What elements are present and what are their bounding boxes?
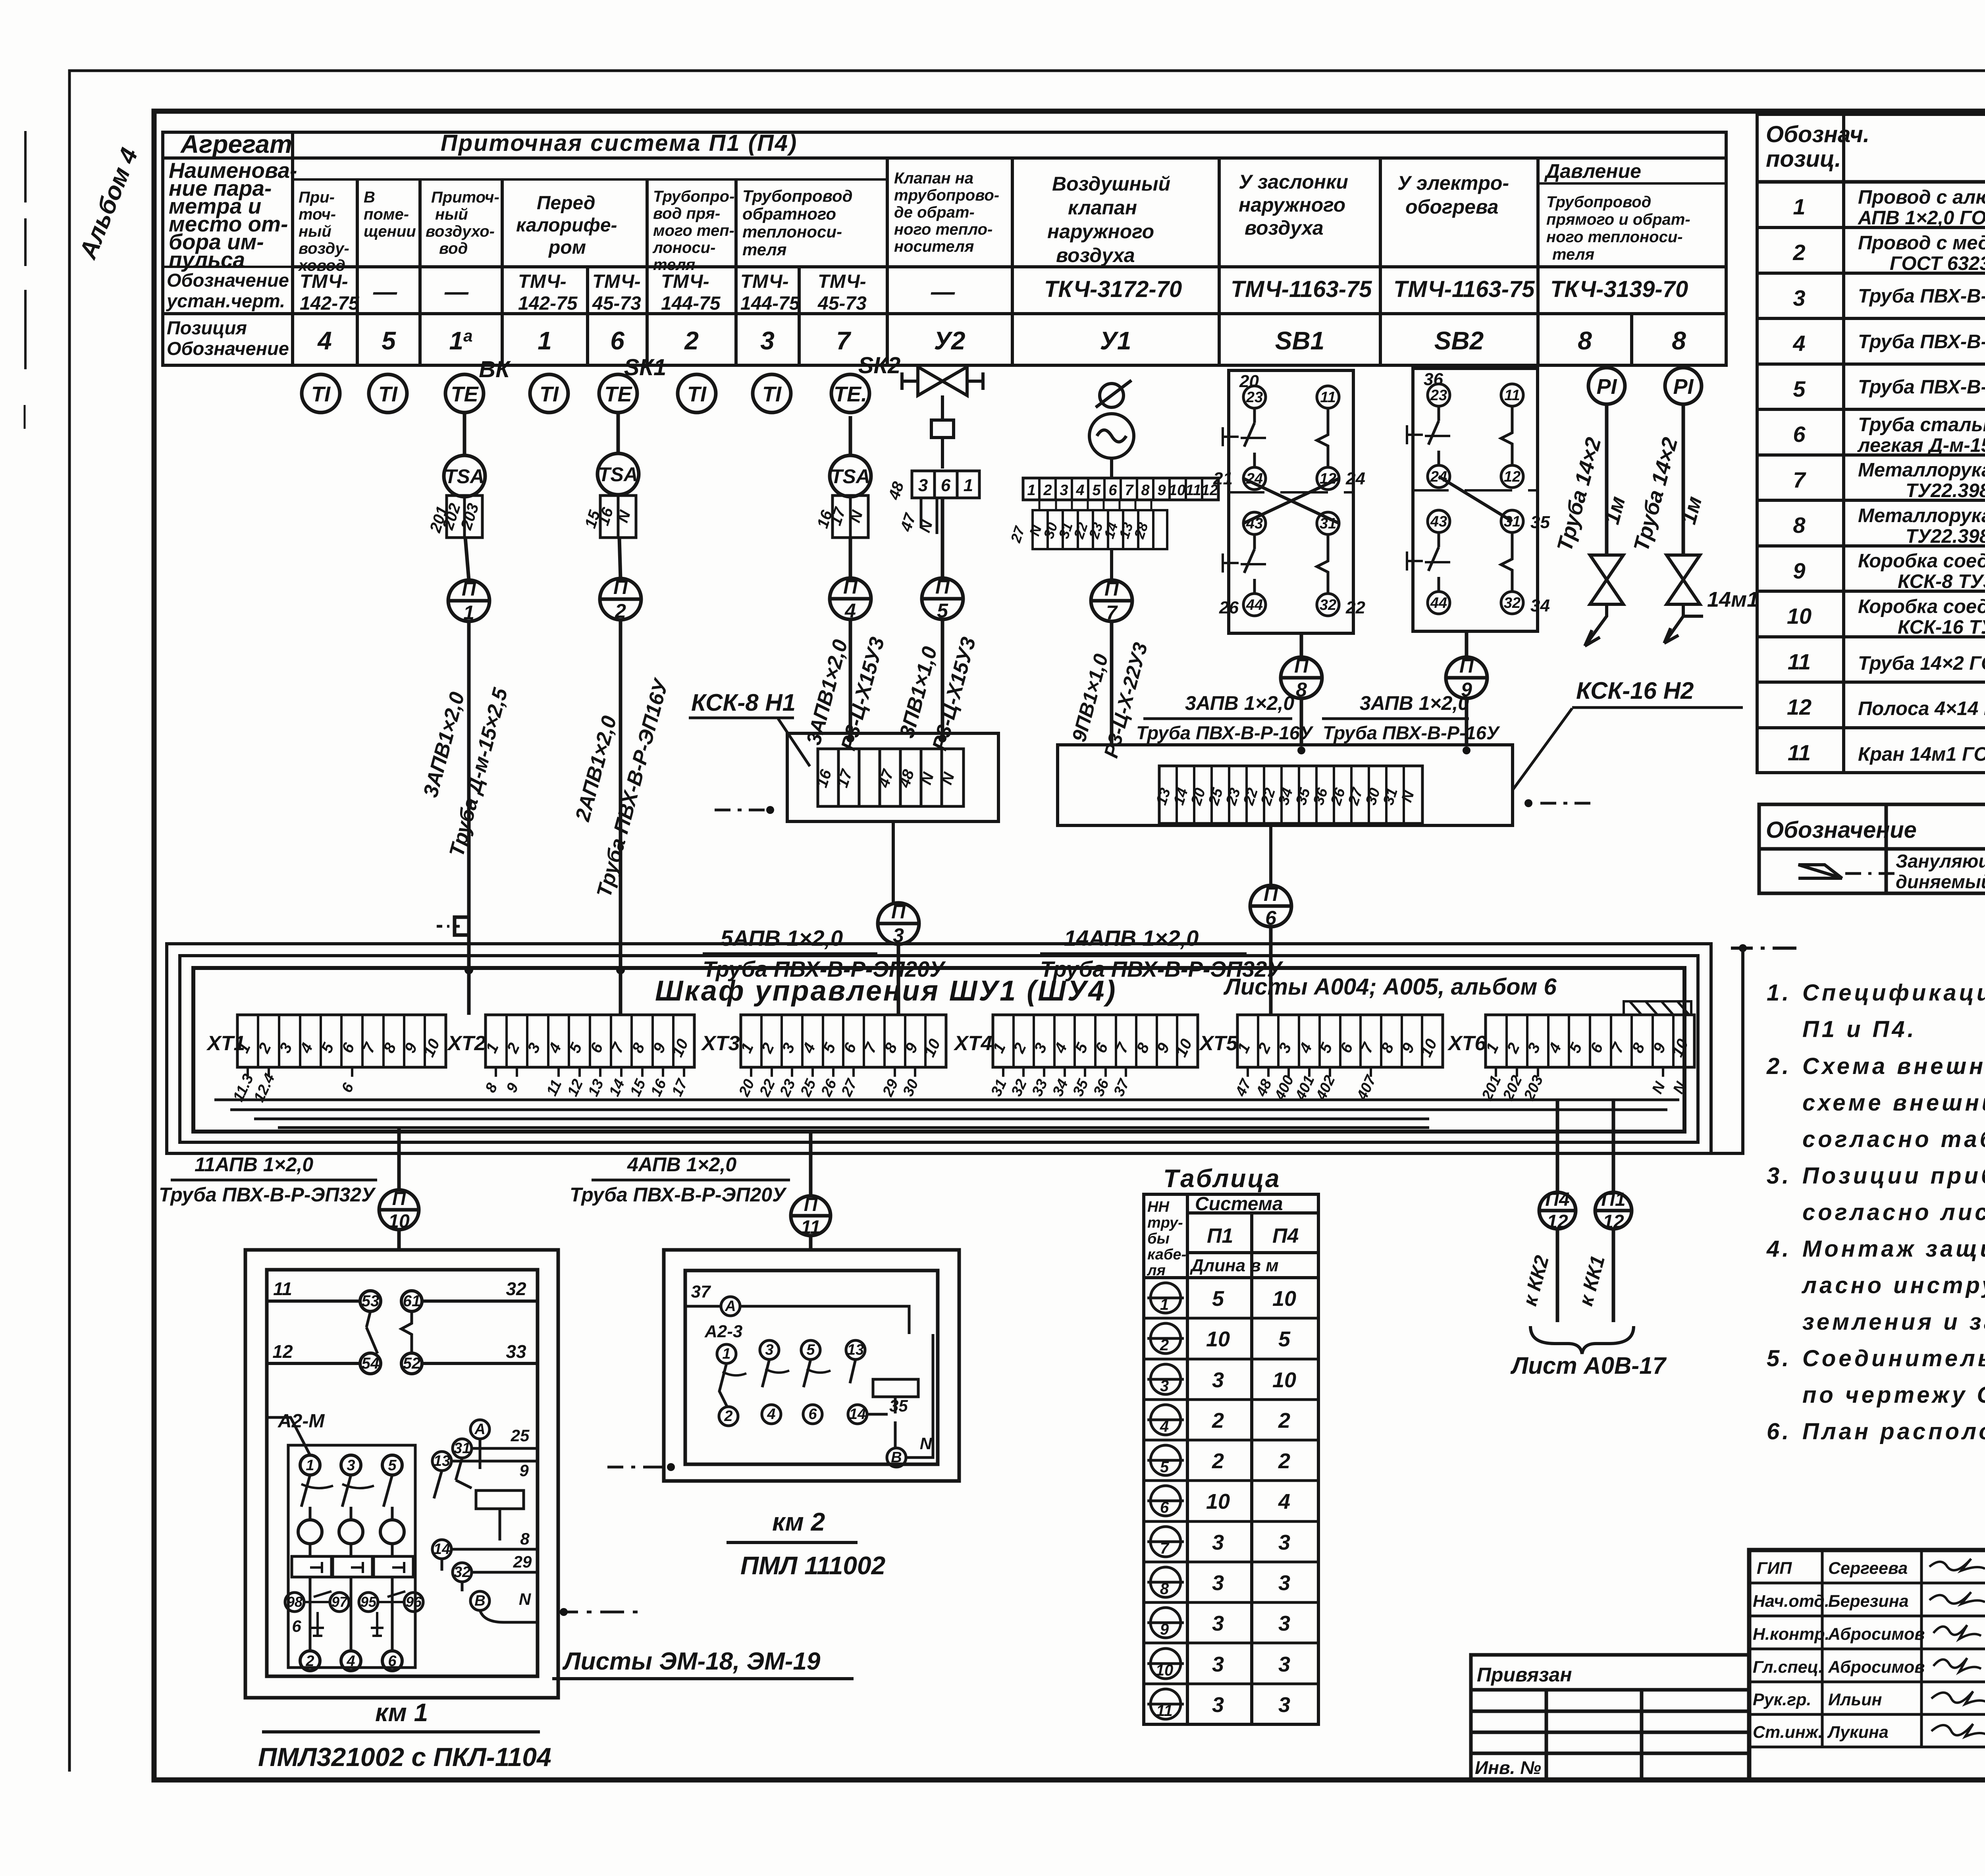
svg-text:TSА: TSА <box>598 463 638 486</box>
svg-text:ПМЛ321002 с ПКЛ-1104: ПМЛ321002 с ПКЛ-1104 <box>258 1742 551 1772</box>
svg-text:2.: 2. <box>1766 1053 1791 1079</box>
svg-text:34: 34 <box>1275 786 1296 807</box>
svg-text:10: 10 <box>1206 1327 1230 1351</box>
svg-text:Труба ПВХ-В-Р-ЭП16У: Труба ПВХ-В-Р-ЭП16У <box>592 675 673 900</box>
svg-text:ТМЧ-144-75: ТМЧ-144-75 <box>661 271 721 314</box>
svg-text:3: 3 <box>760 326 775 355</box>
svg-text:N: N <box>1670 1079 1690 1096</box>
svg-text:3: 3 <box>1160 1377 1169 1395</box>
svg-text:Труба стальная водогазопроводн: Труба стальная водогазопроводнаялегкая Д… <box>1857 414 1985 456</box>
svg-text:TE: TE <box>451 382 479 406</box>
svg-text:12: 12 <box>1787 694 1812 719</box>
svg-text:16: 16 <box>813 767 835 790</box>
svg-text:8: 8 <box>482 1080 501 1095</box>
svg-text:3: 3 <box>1793 285 1805 310</box>
svg-text:10: 10 <box>921 1036 944 1060</box>
svg-text:N: N <box>519 1590 532 1608</box>
svg-text:10: 10 <box>1172 1036 1196 1060</box>
svg-text:9: 9 <box>503 1080 522 1095</box>
svg-text:23: 23 <box>1246 389 1263 406</box>
svg-text:по чертежу ОН8-1-64.: по чертежу ОН8-1-64. <box>1802 1382 1985 1408</box>
svg-text:ПозицияОбозначение: ПозицияОбозначение <box>167 317 289 359</box>
svg-text:2: 2 <box>1043 482 1052 499</box>
svg-text:П: П <box>891 900 906 923</box>
svg-text:44: 44 <box>1430 595 1447 611</box>
svg-text:TSА: TSА <box>831 465 870 488</box>
svg-text:12: 12 <box>1504 469 1521 485</box>
svg-text:11: 11 <box>1185 482 1201 499</box>
svg-text:8: 8 <box>1672 326 1686 355</box>
svg-text:План расположения листы А0В: План расположения листы А0В-22; А0В-23. <box>1802 1419 1985 1444</box>
svg-text:3: 3 <box>347 1457 355 1474</box>
svg-text:Лукина: Лукина <box>1827 1723 1889 1742</box>
svg-text:2: 2 <box>1278 1409 1290 1433</box>
svg-text:20: 20 <box>736 1077 758 1099</box>
svg-text:37: 37 <box>1110 1076 1133 1099</box>
svg-text:Воздушныйклапаннаружноговоздух: Воздушныйклапаннаружноговоздуха <box>1047 173 1170 266</box>
svg-text:Труба ПВХ-В-Р-ЭП32У ТУ6-19-: Труба ПВХ-В-Р-ЭП32У ТУ6-19-215-83 <box>1858 376 1985 398</box>
svg-text:TE.: TE. <box>834 382 867 406</box>
svg-text:1: 1 <box>306 1457 314 1474</box>
svg-text:3: 3 <box>1212 1571 1224 1595</box>
svg-text:14м1: 14м1 <box>1707 588 1759 611</box>
svg-text:44: 44 <box>1246 597 1263 613</box>
svg-text:ННтру-быкабе-ля: ННтру-быкабе-ля <box>1147 1199 1186 1279</box>
svg-text:6: 6 <box>941 476 951 495</box>
svg-text:П1: П1 <box>1601 1189 1625 1210</box>
svg-text:П: П <box>843 576 858 598</box>
svg-text:Наименова-ние пара-метра имест: Наименова-ние пара-метра иместо от-бора … <box>169 158 297 272</box>
svg-text:км 2: км 2 <box>772 1508 825 1536</box>
svg-text:У2: У2 <box>934 326 966 355</box>
svg-text:27: 27 <box>1007 524 1028 545</box>
svg-text:Зануляющий проводник электро: Зануляющий проводник электроустановки, п… <box>1896 850 1985 892</box>
svg-text:11: 11 <box>1504 387 1520 404</box>
svg-text:20: 20 <box>1188 786 1209 808</box>
svg-text:1: 1 <box>538 326 552 355</box>
svg-text:3.: 3. <box>1767 1163 1791 1189</box>
svg-text:Система: Система <box>1195 1193 1283 1215</box>
svg-text:16: 16 <box>648 1076 670 1099</box>
svg-text:36: 36 <box>1090 1076 1112 1099</box>
svg-text:А: А <box>725 1298 736 1315</box>
svg-text:31: 31 <box>988 1077 1010 1099</box>
svg-text:11: 11 <box>801 1217 821 1238</box>
svg-text:26: 26 <box>818 1076 840 1099</box>
svg-text:Полоса 4×14 ГОСТ 103-76: Полоса 4×14 ГОСТ 103-76 <box>1858 698 1985 719</box>
svg-text:32: 32 <box>506 1278 526 1299</box>
svg-text:13: 13 <box>1153 786 1174 807</box>
svg-text:Трубопроводпрямого и обрат-ног: Трубопроводпрямого и обрат-ного теплонос… <box>1546 193 1690 263</box>
svg-text:А: А <box>474 1421 485 1438</box>
svg-text:У заслонкинаружноговоздуха: У заслонкинаружноговоздуха <box>1239 171 1348 239</box>
svg-text:TSА: TSА <box>445 465 484 488</box>
svg-text:ТМЧ-144-75: ТМЧ-144-75 <box>740 271 800 314</box>
svg-text:согласно листа А0В-2.: согласно листа А0В-2. <box>1802 1199 1985 1225</box>
svg-text:6: 6 <box>610 326 624 355</box>
svg-text:11: 11 <box>1156 1702 1173 1720</box>
svg-text:33: 33 <box>1029 1077 1051 1099</box>
svg-text:4: 4 <box>1160 1418 1169 1435</box>
svg-text:Обозначение: Обозначение <box>1766 817 1917 843</box>
svg-text:Длина в м: Длина в м <box>1189 1256 1279 1275</box>
svg-text:У1: У1 <box>1100 326 1131 355</box>
svg-text:11: 11 <box>543 1077 565 1099</box>
svg-text:ТМЧ-45-73: ТМЧ-45-73 <box>817 271 867 314</box>
svg-text:Труба 14×2 ГОСТ 8734-75: Труба 14×2 ГОСТ 8734-75 <box>1858 653 1985 674</box>
svg-text:2: 2 <box>684 326 699 355</box>
svg-text:—: — <box>931 278 955 305</box>
svg-text:к КК1: к КК1 <box>1575 1253 1609 1308</box>
svg-text:5АПВ 1×2,0: 5АПВ 1×2,0 <box>721 925 843 951</box>
svg-text:5: 5 <box>937 600 948 622</box>
svg-text:9: 9 <box>1160 1621 1169 1638</box>
svg-text:11: 11 <box>273 1278 292 1299</box>
svg-text:12: 12 <box>564 1077 586 1099</box>
svg-text:10: 10 <box>1206 1490 1230 1514</box>
svg-text:Давление: Давление <box>1544 160 1641 182</box>
svg-text:Приточная система П1 (П4): Приточная система П1 (П4) <box>441 130 798 156</box>
svg-text:TI: TI <box>378 382 398 406</box>
svg-text:5.: 5. <box>1767 1346 1791 1371</box>
svg-text:Листы А004; А005, альбом 6: Листы А004; А005, альбом 6 <box>1223 974 1557 1000</box>
svg-text:7: 7 <box>1160 1540 1170 1557</box>
svg-text:—: — <box>373 278 397 305</box>
svg-text:27: 27 <box>1345 785 1366 808</box>
svg-text:3: 3 <box>1278 1571 1290 1595</box>
svg-text:10: 10 <box>388 1211 410 1232</box>
svg-text:47: 47 <box>875 767 897 790</box>
svg-text:ХТ6: ХТ6 <box>1447 1032 1486 1055</box>
svg-text:35: 35 <box>1530 513 1550 532</box>
svg-text:ТКЧ-3139-70: ТКЧ-3139-70 <box>1550 276 1688 302</box>
svg-text:3: 3 <box>1212 1368 1224 1392</box>
svg-text:N: N <box>1398 788 1418 804</box>
svg-text:Впоме-щении: Впоме-щении <box>364 189 416 240</box>
svg-text:TI: TI <box>540 382 559 406</box>
svg-text:35: 35 <box>889 1396 908 1415</box>
svg-text:Труба 14×2: Труба 14×2 <box>1553 435 1606 554</box>
svg-text:Провод с медной жилой ПВ1×1,0: Провод с медной жилой ПВ1×1,0ГОСТ 6323-7… <box>1858 232 1985 274</box>
svg-text:TI: TI <box>687 382 707 406</box>
svg-text:5: 5 <box>1092 482 1101 499</box>
svg-text:47: 47 <box>1232 1076 1255 1099</box>
svg-text:6: 6 <box>1160 1499 1169 1516</box>
svg-text:Спецификация выполнена для: Спецификация выполнена для приточных сис… <box>1802 980 1985 1006</box>
svg-text:61: 61 <box>403 1292 421 1310</box>
svg-text:15: 15 <box>627 1076 649 1099</box>
svg-text:3: 3 <box>1278 1652 1290 1676</box>
svg-text:53: 53 <box>362 1292 380 1310</box>
svg-text:32: 32 <box>1008 1077 1030 1099</box>
svg-text:13: 13 <box>434 1453 450 1469</box>
svg-text:Соединительные коробки типа: Соединительные коробки типа „ КСК " уста… <box>1802 1346 1985 1371</box>
svg-text:Труба ПВХ-В-Р-ЭП20У ТУ6-19-: Труба ПВХ-В-Р-ЭП20У ТУ6-19-215-83 <box>1858 331 1985 353</box>
svg-text:6: 6 <box>1265 907 1277 929</box>
svg-text:4АПВ 1×2,0: 4АПВ 1×2,0 <box>627 1153 736 1176</box>
svg-text:10: 10 <box>1156 1662 1174 1679</box>
svg-text:РI: РI <box>1596 375 1617 399</box>
svg-text:8: 8 <box>1160 1580 1169 1598</box>
svg-text:25: 25 <box>797 1076 820 1099</box>
svg-text:48: 48 <box>896 767 918 790</box>
svg-text:26: 26 <box>1219 598 1239 617</box>
svg-text:25: 25 <box>1205 786 1227 808</box>
svg-text:11: 11 <box>1788 649 1811 674</box>
svg-text:ласно инструкции по монтажу: ласно инструкции по монтажу защитного за… <box>1801 1273 1985 1298</box>
svg-text:Обознач.позиц.: Обознач.позиц. <box>1766 121 1869 172</box>
svg-text:2: 2 <box>1212 1449 1224 1473</box>
svg-text:ВК: ВК <box>479 357 511 382</box>
svg-text:ТМЧ-1163-75: ТМЧ-1163-75 <box>1393 276 1535 302</box>
svg-text:35: 35 <box>1070 1076 1092 1099</box>
svg-text:12: 12 <box>272 1341 293 1362</box>
svg-text:Труба ПВХ-В-Р-ЭП16У ТУ6-19-: Труба ПВХ-В-Р-ЭП16У ТУ6-19-215-83 <box>1858 285 1985 307</box>
svg-text:А2-3: А2-3 <box>704 1322 742 1341</box>
svg-text:Привязан: Привязан <box>1477 1664 1572 1686</box>
svg-text:97: 97 <box>331 1594 348 1610</box>
svg-text:6: 6 <box>388 1653 397 1670</box>
svg-text:31: 31 <box>1380 786 1401 807</box>
svg-text:35: 35 <box>1293 786 1314 807</box>
svg-text:Схема внешних проводок сист: Схема внешних проводок системы П4 аналог… <box>1802 1053 1985 1079</box>
svg-text:6: 6 <box>808 1406 817 1423</box>
svg-text:При-точ-ныйвозду-ховод: При-точ-ныйвозду-ховод <box>298 189 349 274</box>
svg-text:1.: 1. <box>1767 980 1791 1006</box>
svg-text:ТМЧ-45-73: ТМЧ-45-73 <box>592 271 641 314</box>
svg-text:Лист А0В-17: Лист А0В-17 <box>1510 1352 1667 1379</box>
svg-text:Коробка соединительнаяКСК-8: Коробка соединительнаяКСК-8 ТУ36.1232-75 <box>1858 550 1985 592</box>
svg-text:21: 21 <box>1213 469 1233 488</box>
svg-text:2: 2 <box>1160 1336 1169 1354</box>
svg-text:11: 11 <box>1788 740 1811 765</box>
svg-text:3АПВ1×2,0: 3АПВ1×2,0 <box>419 690 469 800</box>
svg-text:согласно таблице.: согласно таблице. <box>1802 1126 1985 1152</box>
svg-text:24: 24 <box>1345 469 1365 488</box>
svg-text:П: П <box>1104 578 1119 600</box>
svg-text:7: 7 <box>836 326 852 355</box>
svg-text:3: 3 <box>1278 1612 1290 1635</box>
svg-text:14: 14 <box>1170 786 1191 807</box>
svg-text:32: 32 <box>1320 597 1336 613</box>
svg-text:КСК-16 Н2: КСК-16 Н2 <box>1576 677 1694 704</box>
svg-text:14: 14 <box>606 1077 628 1099</box>
svg-text:Металлорукав Р3-Ц-Х-Ш 15У3ТУ: Металлорукав Р3-Ц-Х-Ш 15У3ТУ22.3988-77 <box>1858 459 1985 501</box>
svg-text:98: 98 <box>287 1594 303 1610</box>
svg-text:КСК-8 Н1: КСК-8 Н1 <box>691 689 796 716</box>
svg-text:Агрегат: Агрегат <box>180 130 292 158</box>
svg-text:ТМЧ-142-75: ТМЧ-142-75 <box>518 271 578 314</box>
svg-text:3: 3 <box>1212 1531 1224 1554</box>
svg-text:17: 17 <box>669 1076 691 1099</box>
svg-text:1: 1 <box>1793 194 1805 219</box>
svg-text:20: 20 <box>1239 372 1259 391</box>
svg-text:П1 и П4.: П1 и П4. <box>1802 1016 1917 1042</box>
svg-text:4: 4 <box>1792 331 1805 356</box>
svg-text:52: 52 <box>403 1355 421 1372</box>
svg-text:ХТ3: ХТ3 <box>701 1032 740 1055</box>
svg-text:П: П <box>1294 655 1309 677</box>
svg-text:Металлорукав Р3-Ц-Х-Ш 22У3Т: Металлорукав Р3-Ц-Х-Ш 22У3ТУ22.3988-77 <box>1858 505 1985 547</box>
svg-text:П4: П4 <box>1545 1189 1569 1210</box>
svg-text:Таблица: Таблица <box>1163 1164 1281 1193</box>
svg-text:43: 43 <box>1430 513 1447 530</box>
svg-text:Гл.спец.: Гл.спец. <box>1753 1658 1823 1677</box>
svg-text:П: П <box>392 1188 407 1209</box>
svg-text:3: 3 <box>1212 1693 1224 1717</box>
svg-text:95: 95 <box>360 1594 377 1610</box>
svg-text:3: 3 <box>1060 482 1068 499</box>
svg-text:Инв. №: Инв. № <box>1475 1757 1541 1778</box>
svg-text:Позиции приборов и аппарату: Позиции приборов и аппаратуры указаны <box>1802 1163 1985 1189</box>
svg-text:10: 10 <box>1669 1036 1692 1060</box>
svg-text:28: 28 <box>1131 521 1151 541</box>
svg-text:47: 47 <box>897 511 919 534</box>
svg-text:2: 2 <box>615 600 626 622</box>
svg-text:П: П <box>1459 655 1474 677</box>
svg-text:23: 23 <box>1430 387 1447 404</box>
svg-text:6: 6 <box>1793 422 1806 447</box>
svg-text:Труба ПВХ-В-Р-ЭП32У: Труба ПВХ-В-Р-ЭП32У <box>159 1184 376 1206</box>
svg-text:1а: 1а <box>449 326 473 355</box>
svg-text:29: 29 <box>513 1552 532 1571</box>
svg-text:В: В <box>891 1449 902 1466</box>
svg-text:27: 27 <box>838 1076 861 1099</box>
svg-text:N: N <box>920 1434 933 1453</box>
svg-text:4: 4 <box>1075 482 1084 499</box>
svg-text:2: 2 <box>1212 1409 1224 1433</box>
svg-text:Трубопроводобратноготеплоноси-: Трубопроводобратноготеплоноси-теля <box>742 187 853 259</box>
svg-text:13: 13 <box>585 1077 607 1099</box>
svg-text:П: П <box>613 576 628 598</box>
svg-text:Ст.инж.: Ст.инж. <box>1753 1723 1823 1742</box>
svg-text:П: П <box>462 578 476 600</box>
svg-text:Труба 14×2: Труба 14×2 <box>1629 435 1682 554</box>
svg-text:Монтаж защитного зануления: Монтаж защитного зануления выполнить сог… <box>1802 1236 1985 1262</box>
svg-text:36: 36 <box>1424 370 1443 389</box>
svg-text:Абросимов: Абросимов <box>1828 1625 1925 1644</box>
svg-text:Альбом 4: Альбом 4 <box>74 144 143 263</box>
svg-text:Труба ПВХ-В-Р-16У: Труба ПВХ-В-Р-16У <box>1323 722 1500 743</box>
svg-text:5: 5 <box>1160 1458 1169 1476</box>
svg-text:Листы ЭМ-18, ЭМ-19: Листы ЭМ-18, ЭМ-19 <box>562 1648 821 1675</box>
svg-text:Передкалорифе-ром: Передкалорифе-ром <box>516 193 617 258</box>
svg-text:8: 8 <box>1141 482 1150 499</box>
svg-text:1: 1 <box>1160 1296 1169 1313</box>
svg-text:34: 34 <box>1530 596 1550 615</box>
svg-text:7: 7 <box>1793 467 1806 492</box>
svg-text:4.: 4. <box>1766 1236 1791 1262</box>
svg-text:48: 48 <box>885 479 908 502</box>
svg-text:SК1: SК1 <box>624 355 667 380</box>
svg-text:РI: РI <box>1673 375 1694 399</box>
svg-text:Сергеева: Сергеева <box>1828 1559 1908 1578</box>
svg-text:П1: П1 <box>1207 1224 1233 1247</box>
svg-text:Рук.гр.: Рук.гр. <box>1753 1690 1812 1709</box>
svg-text:9: 9 <box>1157 482 1166 499</box>
svg-text:N: N <box>1649 1079 1669 1096</box>
svg-text:25: 25 <box>511 1426 530 1445</box>
svg-text:32: 32 <box>1504 595 1521 611</box>
svg-text:ТМЧ-142-75: ТМЧ-142-75 <box>300 271 360 314</box>
svg-text:П: П <box>804 1194 818 1215</box>
svg-text:В: В <box>474 1593 485 1609</box>
svg-text:3: 3 <box>918 476 928 495</box>
svg-text:км 1: км 1 <box>375 1698 428 1727</box>
svg-text:31: 31 <box>454 1440 470 1457</box>
svg-text:TI: TI <box>311 382 331 406</box>
svg-text:2: 2 <box>305 1653 314 1670</box>
svg-text:4: 4 <box>767 1406 775 1423</box>
svg-text:23: 23 <box>777 1077 799 1099</box>
svg-text:30: 30 <box>1363 786 1384 807</box>
svg-text:9: 9 <box>1793 558 1805 583</box>
svg-text:11АПВ 1×2,0: 11АПВ 1×2,0 <box>195 1153 313 1176</box>
svg-text:Приточ-ныйвоздухо-вод: Приточ-ныйвоздухо-вод <box>426 189 499 257</box>
svg-text:—: — <box>444 278 469 305</box>
svg-text:30: 30 <box>900 1077 922 1099</box>
svg-text:22: 22 <box>1258 786 1279 808</box>
svg-text:SК2: SК2 <box>858 353 901 378</box>
svg-text:9ПВ1×1,0: 9ПВ1×1,0 <box>1068 652 1112 744</box>
svg-text:1м: 1м <box>1600 494 1630 527</box>
svg-text:Абросимов: Абросимов <box>1828 1658 1925 1677</box>
svg-text:1: 1 <box>1027 482 1035 499</box>
svg-text:1м: 1м <box>1677 494 1707 527</box>
svg-text:3АПВ 1×2,0: 3АПВ 1×2,0 <box>1360 692 1469 714</box>
svg-text:Труба ПВХ-В-Р-ЭП20У: Труба ПВХ-В-Р-ЭП20У <box>570 1184 787 1206</box>
svg-text:ХТ4: ХТ4 <box>953 1032 992 1055</box>
svg-text:4: 4 <box>1278 1490 1290 1514</box>
svg-text:2: 2 <box>1278 1449 1290 1473</box>
svg-text:14: 14 <box>849 1406 866 1423</box>
svg-text:А2-М: А2-М <box>278 1411 325 1432</box>
svg-text:П4: П4 <box>1272 1224 1299 1247</box>
svg-text:ТМЧ-1163-75: ТМЧ-1163-75 <box>1231 276 1372 302</box>
svg-text:4: 4 <box>346 1653 355 1670</box>
svg-text:Шкаф управления ШУ1 (ШУ4): Шкаф управления ШУ1 (ШУ4) <box>655 975 1117 1007</box>
svg-text:14АПВ 1×2,0: 14АПВ 1×2,0 <box>1064 925 1199 951</box>
svg-text:33: 33 <box>506 1341 526 1362</box>
svg-text:TI: TI <box>762 382 782 406</box>
svg-text:8: 8 <box>1296 679 1307 701</box>
svg-text:5: 5 <box>382 326 396 355</box>
svg-text:Нач.отд.: Нач.отд. <box>1753 1592 1829 1611</box>
svg-text:23: 23 <box>1223 786 1244 808</box>
svg-text:10: 10 <box>1169 482 1185 499</box>
svg-text:10: 10 <box>420 1036 443 1060</box>
svg-text:32: 32 <box>454 1564 470 1581</box>
svg-text:10: 10 <box>1272 1287 1296 1311</box>
svg-text:22: 22 <box>756 1077 779 1099</box>
svg-text:96: 96 <box>406 1594 422 1610</box>
svg-text:37: 37 <box>691 1282 711 1301</box>
svg-text:3: 3 <box>765 1342 773 1358</box>
svg-text:9: 9 <box>519 1461 529 1480</box>
svg-text:N: N <box>916 518 936 534</box>
svg-text:8: 8 <box>1793 513 1806 538</box>
svg-text:5: 5 <box>1212 1287 1224 1311</box>
svg-text:1: 1 <box>964 476 973 495</box>
svg-text:TE: TE <box>604 382 632 406</box>
svg-text:2АПВ1×2,0: 2АПВ1×2,0 <box>571 713 621 824</box>
svg-text:ПМЛ 111002: ПМЛ 111002 <box>740 1551 885 1580</box>
svg-text:У электро-обогрева: У электро-обогрева <box>1397 172 1509 218</box>
svg-text:Обозначениеустан.черт.: Обозначениеустан.черт. <box>166 270 289 311</box>
svg-text:5: 5 <box>1793 376 1806 401</box>
svg-text:ХТ2: ХТ2 <box>447 1032 486 1055</box>
svg-text:Ильин: Ильин <box>1828 1690 1882 1709</box>
